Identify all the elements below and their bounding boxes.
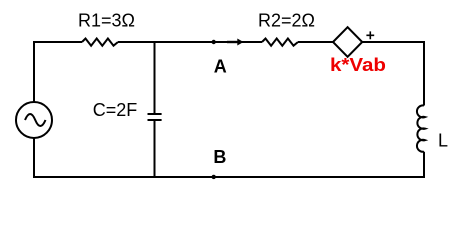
svg-text:C=2F: C=2F (93, 100, 138, 120)
svg-text:R2=2Ω: R2=2Ω (258, 11, 315, 31)
svg-text:B: B (213, 147, 226, 167)
svg-text:A: A (214, 56, 227, 76)
svg-text:k*Vab: k*Vab (330, 55, 386, 75)
svg-text:R1=3Ω: R1=3Ω (78, 11, 135, 31)
svg-text:L: L (438, 131, 448, 151)
